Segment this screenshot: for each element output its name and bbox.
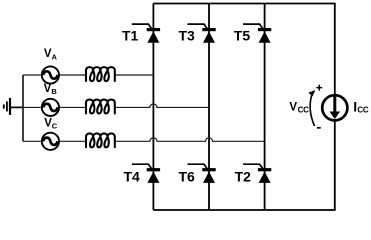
svg-text:T2: T2 — [235, 169, 252, 185]
svg-text:T3: T3 — [179, 28, 196, 44]
svg-text:CC: CC — [357, 105, 368, 114]
svg-text:C: C — [52, 121, 58, 130]
svg-text:V: V — [44, 83, 52, 95]
svg-text:A: A — [52, 52, 58, 61]
svg-text:B: B — [51, 87, 57, 96]
svg-text:T1: T1 — [122, 28, 139, 44]
svg-text:T5: T5 — [234, 28, 251, 44]
svg-text:T6: T6 — [179, 169, 196, 185]
svg-text:CC: CC — [298, 105, 309, 114]
svg-text:V: V — [289, 101, 297, 113]
svg-text:T4: T4 — [124, 169, 141, 185]
